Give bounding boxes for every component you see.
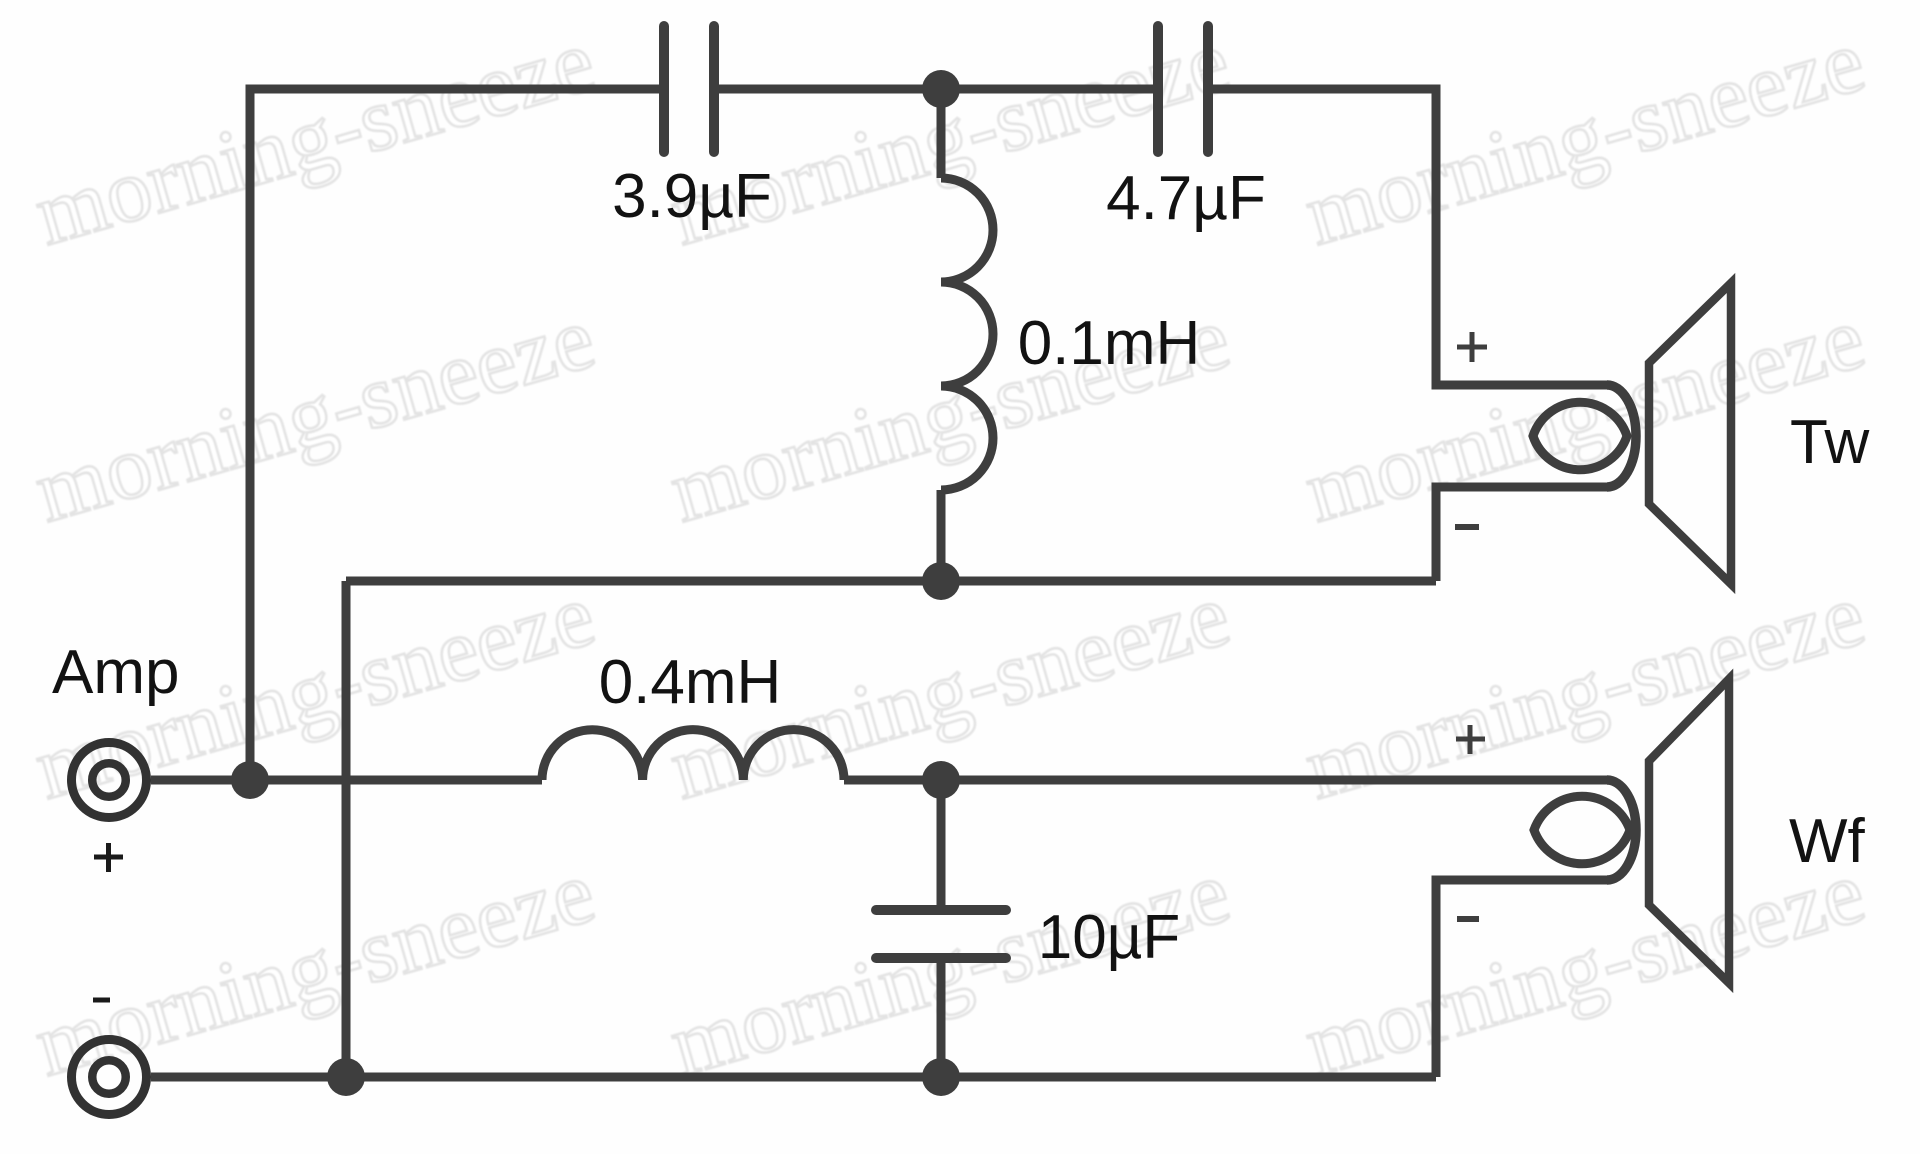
wire C3 to ground rail: [937, 962, 946, 1077]
minus mark at tweeter: [1455, 524, 1479, 530]
wire C2 to tweeter + lead: [1208, 89, 1607, 385]
woofer voice-coil loop: [1534, 796, 1630, 864]
svg-text:Tw: Tw: [1790, 408, 1869, 477]
wire L1 to node B: [937, 490, 946, 581]
wire node C down to capacitor C3: [937, 780, 946, 906]
wire tweeter return riser down to ground rail: [342, 581, 351, 1077]
svg-text:0.4mH: 0.4mH: [599, 648, 782, 717]
plus mark at tweeter: [1457, 332, 1487, 362]
terminal Amp + (concentric rings): [72, 743, 147, 818]
svg-text:Wf: Wf: [1789, 807, 1866, 876]
wire bottom ground rail: [151, 1073, 1436, 1082]
capacitor C3 10uF: [876, 910, 1006, 958]
speaker Tw horn: [1649, 283, 1731, 584]
speaker Wf horn: [1649, 679, 1729, 983]
node A junction dot: [922, 70, 960, 108]
woofer voice-coil hook: [1607, 780, 1636, 880]
wire Amp + to inductor L2: [151, 776, 542, 785]
svg-text:10µF: 10µF: [1038, 903, 1181, 972]
junction dot at bottom rail left: [327, 1058, 365, 1096]
plus mark at woofer: [1456, 725, 1485, 754]
wire node A down to L1: [937, 89, 946, 178]
wire C1 to C2 through node A: [714, 85, 1158, 94]
wire L2 to woofer + lead: [844, 776, 1607, 785]
node B junction dot: [922, 562, 960, 600]
tweeter voice-coil hook: [1607, 385, 1636, 487]
minus mark at woofer: [1457, 916, 1479, 922]
svg-text:0.1mH: 0.1mH: [1018, 309, 1201, 378]
wire tweeter - lead to bottom rail: [1436, 487, 1607, 581]
capacitor C1 3.9uF: [664, 26, 714, 152]
junction node at Amp + branch: [231, 761, 269, 799]
tweeter voice-coil loop: [1533, 402, 1627, 470]
terminal Amp - (concentric rings): [72, 1040, 147, 1115]
wire woofer - lead down to ground rail: [1436, 880, 1607, 1077]
minus mark at Amp: [93, 998, 110, 1003]
inductor L1 0.1mH: [941, 178, 993, 490]
svg-text:Amp: Amp: [52, 638, 179, 707]
plus mark at Amp: [94, 843, 123, 872]
inductor L2 0.4mH: [542, 730, 844, 780]
svg-text:3.9µF: 3.9µF: [612, 162, 772, 231]
node D junction dot: [922, 1058, 960, 1096]
wire left riser from Amp + node up and along top rail to C1: [250, 89, 664, 780]
node C junction dot: [922, 761, 960, 799]
wire tweeter bottom rail: [346, 577, 1436, 586]
capacitor C2 4.7uF: [1158, 26, 1208, 152]
svg-text:4.7µF: 4.7µF: [1106, 164, 1266, 233]
